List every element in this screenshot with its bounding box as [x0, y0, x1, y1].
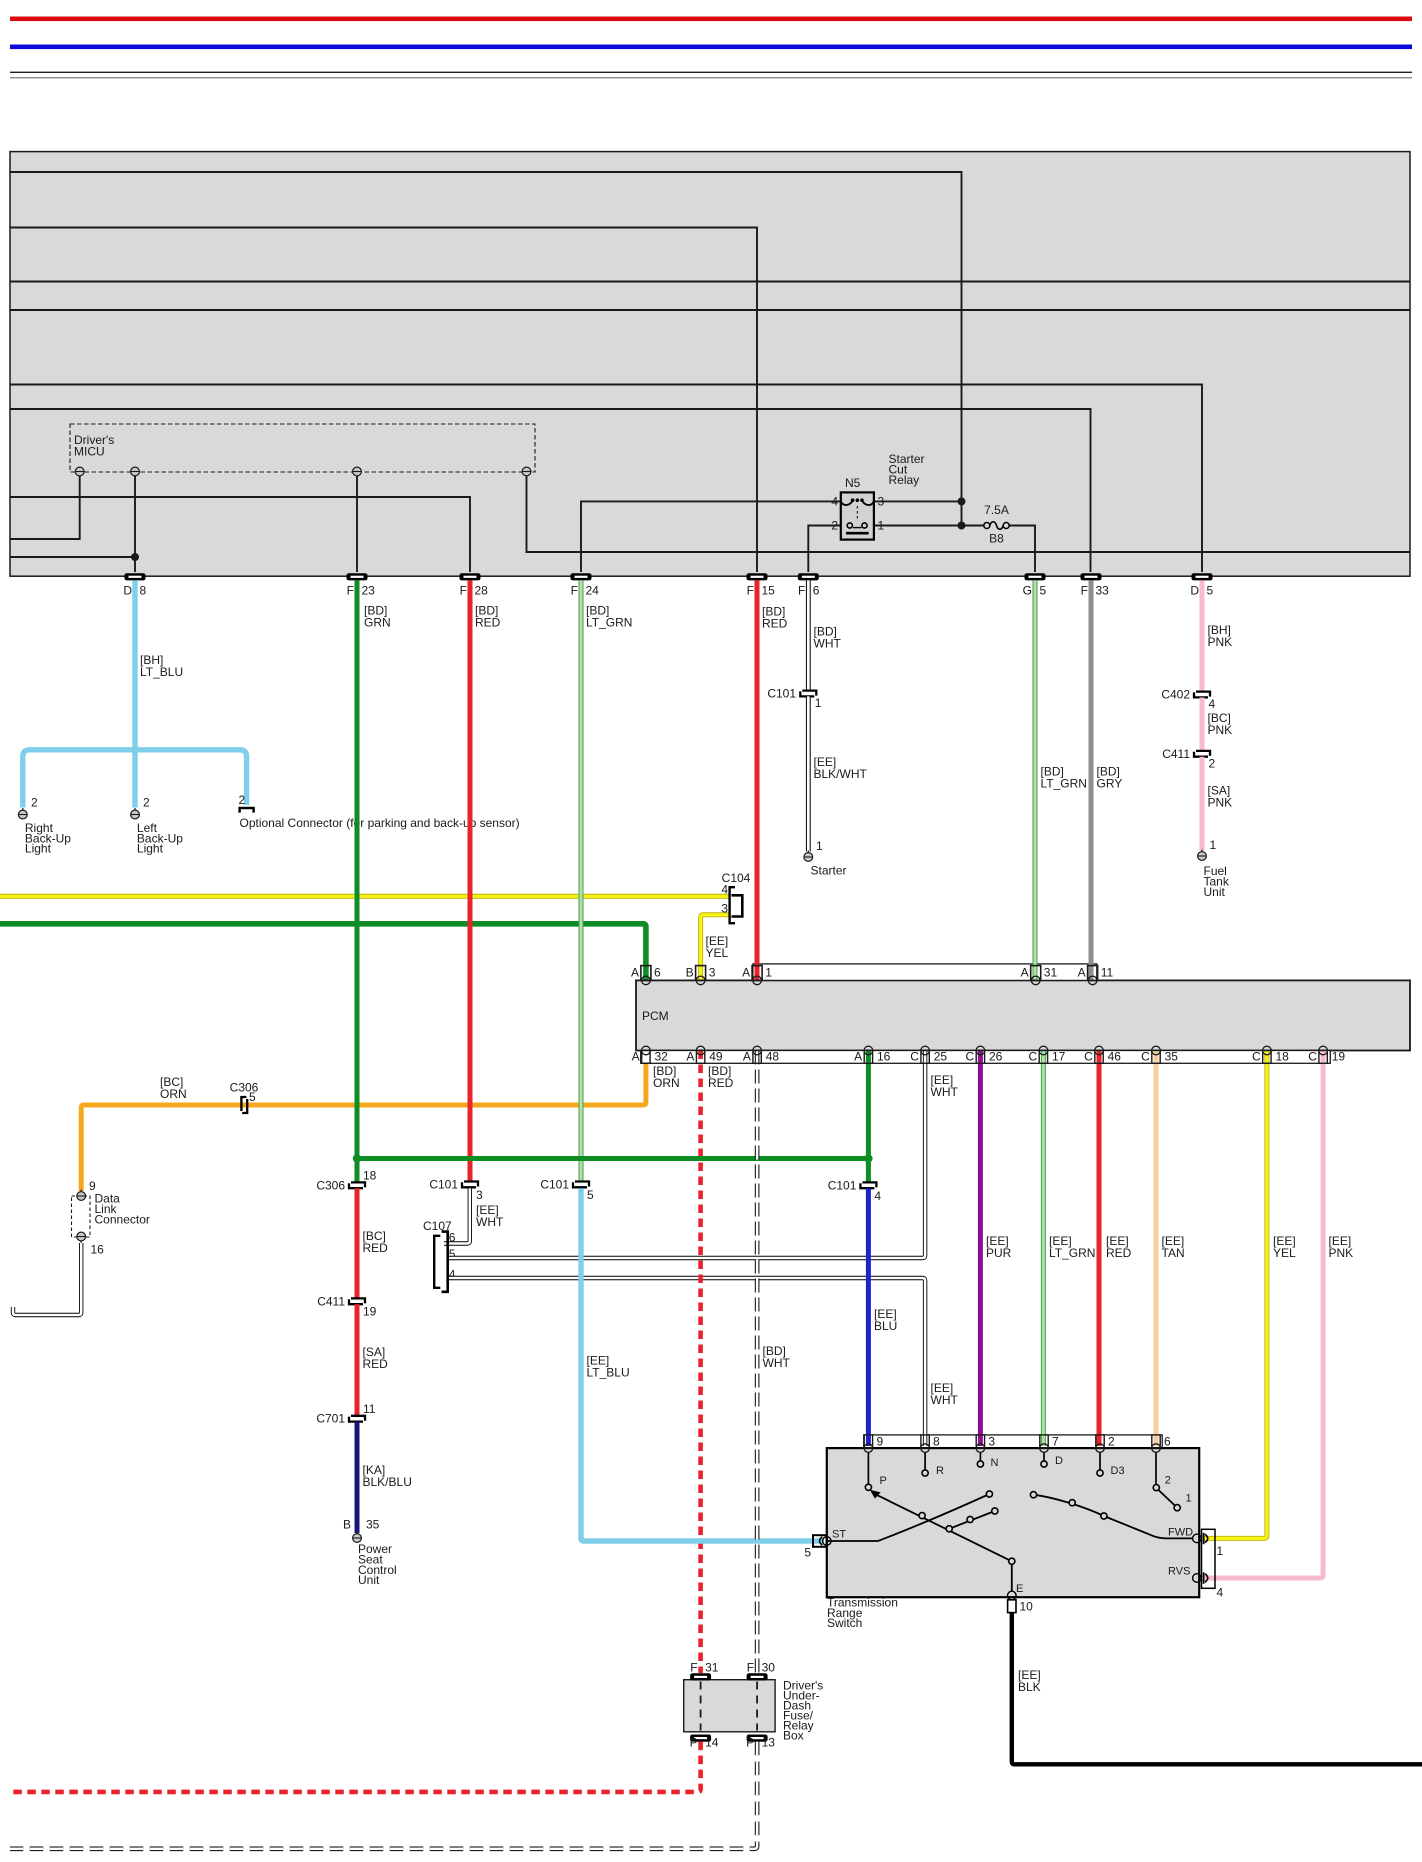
svg-text:19: 19: [1332, 1050, 1346, 1064]
TRS lever pivots: [919, 1491, 1180, 1565]
svg-text:RED: RED: [1106, 1246, 1132, 1260]
fuse box body: [684, 1680, 775, 1732]
TRS body: [827, 1448, 1199, 1597]
svg-text:5: 5: [249, 1090, 256, 1104]
relay N5 body: [841, 492, 874, 539]
svg-text:A: A: [742, 966, 750, 980]
svg-text:7.5A: 7.5A: [984, 503, 1009, 517]
svg-text:RED: RED: [762, 617, 788, 631]
svg-text:A: A: [1021, 966, 1029, 980]
svg-text:C101: C101: [767, 687, 796, 701]
svg-text:16: 16: [877, 1050, 891, 1064]
wire C26 PUR: [978, 1051, 983, 1447]
terminal DLC pin16: [77, 1232, 86, 1243]
wire bus2 y227.5 to F15: [10, 228, 757, 573]
wire D8 LT_BLU trunk: [132, 580, 137, 807]
svg-text:A: A: [686, 1050, 694, 1064]
wire bus1 y172 to relay vertical: [10, 172, 962, 499]
fuse box name: [783, 1679, 823, 1743]
junction relay pin1 node: [958, 522, 966, 530]
svg-text:G: G: [1023, 584, 1032, 598]
svg-text:10: 10: [1020, 1600, 1034, 1614]
connector C101 pin1: [800, 691, 816, 697]
svg-text:3: 3: [721, 902, 728, 916]
TRS top connector bar: [864, 1435, 1162, 1448]
wire KA BLK/BLU: [355, 1422, 360, 1533]
wire C35 TAN: [1154, 1051, 1159, 1447]
svg-text:C402: C402: [1161, 688, 1190, 702]
wire D5 PNK: [1200, 580, 1205, 691]
svg-text:C: C: [966, 1050, 975, 1064]
terminal power seat control unit: [353, 1532, 362, 1543]
svg-text:18: 18: [363, 1169, 377, 1183]
svg-text:A: A: [1078, 966, 1086, 980]
svg-text:PCM: PCM: [642, 1009, 669, 1023]
svg-text:F: F: [1081, 584, 1088, 598]
TRS top pin squares: [864, 1435, 1160, 1448]
svg-text:1: 1: [1186, 1493, 1192, 1505]
PCM top connector A bar: [753, 964, 1097, 981]
svg-text:31: 31: [705, 1660, 719, 1674]
TRS lever ST arm: [827, 1494, 990, 1541]
svg-text:4: 4: [721, 883, 728, 897]
svg-text:15: 15: [762, 584, 776, 598]
TRS lever arrowhead: [870, 1490, 881, 1499]
svg-text:2: 2: [1108, 1434, 1115, 1448]
svg-text:C411: C411: [1162, 747, 1190, 761]
terminal DLC pin9: [77, 1190, 86, 1201]
svg-text:33: 33: [1096, 584, 1110, 598]
svg-text:LT_BLU: LT_BLU: [140, 665, 183, 679]
svg-text:3: 3: [476, 1188, 483, 1202]
connector C101 pin5 on F24 ltgrn: [573, 1182, 589, 1188]
TRS top pin numbers: [877, 1434, 1172, 1448]
connector C107: [434, 1236, 440, 1288]
svg-text:C: C: [1084, 1050, 1093, 1064]
wire relay pin1 to fuse: [874, 525, 984, 527]
fuse B8: [984, 523, 990, 529]
svg-text:19: 19: [363, 1305, 377, 1319]
svg-text:C: C: [1029, 1050, 1038, 1064]
wire micu2 to D8: [10, 476, 135, 572]
svg-text:5: 5: [1207, 584, 1214, 598]
svg-text:RED: RED: [363, 1241, 389, 1255]
connector C104: [730, 887, 735, 923]
relay dashed link: [856, 506, 858, 521]
wire PNK SA: [1200, 757, 1205, 851]
svg-text:LT_GRN: LT_GRN: [1041, 777, 1087, 791]
svg-text:6: 6: [654, 966, 661, 980]
TRS top pin circles: [864, 1444, 1160, 1453]
wire C18 YEL to FWD: [1203, 1051, 1267, 1539]
connector F30: [747, 1673, 768, 1680]
wire EE WHT C107-5 to C25: [449, 1051, 925, 1259]
terminal left back-up light: [131, 808, 140, 819]
wire F24 to relay pin4: [581, 501, 841, 572]
svg-text:GRY: GRY: [1097, 777, 1123, 791]
wire G5 LT_GRN: [1033, 580, 1038, 980]
svg-text:1: 1: [815, 696, 822, 710]
svg-text:LT_BLU: LT_BLU: [587, 1366, 630, 1380]
connector F24: [571, 573, 592, 580]
wire YEL pin3 to PCM B13: [701, 915, 730, 981]
svg-text:D: D: [123, 584, 132, 598]
wire EE BLU to TRS pin9: [866, 1188, 871, 1446]
relay contacts: [847, 523, 852, 528]
gray harness box: [10, 152, 1410, 577]
svg-text:N: N: [991, 1457, 999, 1469]
svg-text:WHT: WHT: [814, 637, 842, 651]
svg-text:F: F: [690, 1660, 697, 1674]
svg-text:ORN: ORN: [653, 1076, 680, 1090]
svg-text:Starter: Starter: [811, 864, 847, 878]
svg-text:P: P: [880, 1475, 887, 1487]
connector C411 pin2: [1194, 751, 1210, 757]
wire EE WHT C107-4 to TRS pin8: [449, 1278, 925, 1446]
wire EE LT_BLU to TRS ST: [581, 1188, 824, 1541]
terminal starter: [804, 851, 813, 862]
PCM top pin squares: [641, 966, 1098, 981]
wire EE BLK from E: [1012, 1613, 1422, 1765]
svg-text:2: 2: [239, 793, 246, 807]
svg-text:C107: C107: [423, 1219, 452, 1233]
wire F23 GRN: [355, 580, 360, 1158]
relay coil: [841, 500, 874, 505]
wire P14 RED dashed exit left: [10, 1742, 701, 1792]
svg-text:C101: C101: [429, 1177, 458, 1191]
svg-text:BLK/BLU: BLK/BLU: [363, 1475, 412, 1489]
wire F33 GRY: [1089, 580, 1094, 980]
svg-text:PNK: PNK: [1208, 635, 1233, 649]
svg-text:2: 2: [31, 796, 38, 810]
wire SA RED: [355, 1304, 360, 1416]
banner red rule: [10, 17, 1412, 22]
TRS lever P arm to E: [876, 1495, 1012, 1562]
wire relay pin2 to F6: [808, 526, 841, 573]
wire BC RED: [355, 1188, 360, 1298]
connector C101 pin4 on green: [860, 1182, 876, 1188]
wire GRN link F23 to A16: [357, 1051, 868, 1183]
terminal right back-up light: [18, 808, 27, 819]
wire C46 RED: [1097, 1051, 1102, 1447]
wire DLC16 WHT exit left: [13, 1243, 81, 1315]
svg-text:C: C: [910, 1050, 919, 1064]
svg-text:PUR: PUR: [986, 1246, 1012, 1260]
svg-text:9: 9: [877, 1434, 884, 1448]
TRS lever D arc to FWD: [1034, 1495, 1193, 1539]
wire F15 RED: [755, 580, 760, 980]
svg-text:23: 23: [362, 584, 376, 598]
TRS edge pin circles: [823, 1534, 1202, 1600]
svg-text:PNK: PNK: [1329, 1246, 1354, 1260]
svg-text:26: 26: [989, 1050, 1003, 1064]
wire bus3 y281.5 full width: [10, 281, 1410, 283]
svg-text:C411: C411: [317, 1294, 345, 1308]
svg-text:A: A: [631, 966, 639, 980]
svg-text:46: 46: [1108, 1050, 1122, 1064]
svg-text:48: 48: [766, 1050, 780, 1064]
svg-text:31: 31: [1044, 966, 1058, 980]
svg-text:R: R: [936, 1465, 944, 1477]
svg-text:13: 13: [762, 1736, 776, 1750]
svg-text:F: F: [798, 584, 805, 598]
data link connector dashed box: [72, 1196, 91, 1237]
svg-text:3: 3: [709, 966, 716, 980]
connector ST housing: [813, 1535, 827, 1547]
connector F33: [1081, 573, 1102, 580]
svg-text:4: 4: [874, 1189, 881, 1203]
svg-text:17: 17: [1052, 1050, 1066, 1064]
svg-text:P: P: [746, 1736, 754, 1750]
svg-text:D3: D3: [1111, 1465, 1125, 1477]
svg-text:LT_GRN: LT_GRN: [1049, 1246, 1095, 1260]
junction GRN node2: [864, 1154, 872, 1162]
svg-text:Unit: Unit: [1204, 885, 1226, 899]
svg-text:N5: N5: [845, 476, 861, 490]
svg-text:F: F: [460, 584, 467, 598]
svg-text:A: A: [854, 1050, 862, 1064]
svg-text:Connector: Connector: [95, 1213, 150, 1227]
banner blue rule: [10, 45, 1412, 50]
svg-text:49: 49: [709, 1050, 723, 1064]
svg-text:5: 5: [804, 1546, 811, 1560]
svg-text:2: 2: [831, 519, 838, 533]
connector P14: [690, 1735, 711, 1742]
connector C411 pin19: [349, 1298, 365, 1304]
svg-text:F: F: [747, 584, 754, 598]
Driver's MICU dashed box: [70, 424, 535, 472]
wire bus4 y310 full width: [10, 309, 1410, 311]
connector C306 pin5 on orange: [241, 1097, 247, 1113]
connector F31: [690, 1673, 711, 1680]
svg-text:ORN: ORN: [160, 1087, 187, 1101]
wire PNK BC: [1200, 698, 1205, 751]
PCM bottom pin labels: [632, 1050, 1346, 1064]
svg-text:5: 5: [587, 1188, 594, 1202]
wire LT_BLU branch bar: [23, 750, 247, 808]
svg-text:18: 18: [1276, 1050, 1290, 1064]
svg-text:1: 1: [878, 519, 885, 533]
svg-text:B8: B8: [989, 532, 1004, 546]
svg-text:2: 2: [143, 796, 150, 810]
svg-text:30: 30: [762, 1660, 776, 1674]
connector F28: [460, 573, 481, 580]
PCM body: [636, 980, 1410, 1050]
wire A48 WHT dashed: [755, 1051, 760, 1674]
svg-text:2: 2: [1209, 756, 1216, 770]
junction LT_BLU node: [131, 746, 139, 754]
svg-text:Switch: Switch: [827, 1616, 862, 1630]
optional connector bracket: [240, 808, 254, 813]
connector FWD/RVS housing: [1202, 1529, 1216, 1588]
wire P13 WHT dashed exit left: [10, 1742, 757, 1849]
svg-text:WHT: WHT: [931, 1393, 959, 1407]
svg-text:F: F: [747, 1660, 754, 1674]
wire starter BLK/WHT: [806, 696, 811, 851]
connector F15: [747, 573, 768, 580]
svg-text:PNK: PNK: [1208, 796, 1233, 810]
wire F24 LT_GRN: [579, 580, 584, 1181]
connector E pin square: [1008, 1600, 1016, 1613]
svg-text:8: 8: [933, 1434, 940, 1448]
svg-text:16: 16: [91, 1243, 105, 1257]
connector G5: [1025, 573, 1046, 580]
svg-text:28: 28: [475, 584, 489, 598]
svg-text:25: 25: [934, 1050, 948, 1064]
PCM bottom pin squares: [642, 1051, 1328, 1064]
connector D5: [1192, 573, 1213, 580]
svg-text:TAN: TAN: [1162, 1246, 1185, 1260]
PCM top pin labels: [631, 966, 1113, 980]
svg-text:C101: C101: [540, 1177, 569, 1191]
PCM bottom connector bar: [641, 1051, 1331, 1064]
svg-text:LT_GRN: LT_GRN: [586, 616, 632, 630]
wire F28 RED: [468, 580, 473, 1181]
svg-text:1: 1: [1217, 1544, 1224, 1558]
wire C17 LT_GRN: [1041, 1051, 1046, 1447]
svg-text:C: C: [1308, 1050, 1317, 1064]
svg-text:YEL: YEL: [1273, 1246, 1296, 1260]
svg-text:MICU: MICU: [74, 445, 105, 459]
svg-text:8: 8: [140, 584, 147, 598]
svg-text:35: 35: [1165, 1050, 1179, 1064]
svg-text:11: 11: [1101, 966, 1114, 980]
svg-text:B: B: [686, 966, 694, 980]
svg-text:5: 5: [1040, 584, 1047, 598]
wire bus6 y409 to F33: [10, 409, 1091, 572]
wire micu3 to F23: [356, 476, 358, 572]
wire relay pin3 to junction: [874, 499, 962, 526]
svg-text:YEL: YEL: [706, 946, 729, 960]
connector C306 pin18: [349, 1182, 365, 1188]
junction D8 node: [131, 553, 139, 561]
TRS lever E stub: [1011, 1561, 1013, 1591]
wire micu1 exit left: [10, 476, 80, 539]
wire F6 WHT: [806, 580, 811, 690]
svg-text:32: 32: [655, 1050, 669, 1064]
svg-text:2: 2: [1165, 1475, 1171, 1487]
MICU terminal bubbles: [75, 467, 531, 476]
svg-text:A: A: [743, 1050, 751, 1064]
wire C19 PNK to RVS: [1203, 1051, 1323, 1579]
PCM top pin circles: [642, 976, 1097, 985]
svg-text:24: 24: [586, 584, 600, 598]
svg-text:C101: C101: [828, 1178, 857, 1192]
svg-text:WHT: WHT: [931, 1085, 959, 1099]
connector C701 pin11: [349, 1416, 365, 1422]
svg-text:RED: RED: [708, 1076, 734, 1090]
connector C402: [1194, 692, 1210, 698]
wire A49 RED dashed: [698, 1051, 703, 1674]
svg-text:C701: C701: [316, 1412, 345, 1426]
svg-text:RED: RED: [363, 1357, 389, 1371]
wire A32 ORN to DLC: [81, 1051, 646, 1192]
svg-text:6: 6: [813, 584, 820, 598]
svg-text:6: 6: [1164, 1434, 1171, 1448]
connector P13: [747, 1735, 768, 1742]
svg-text:6: 6: [449, 1230, 456, 1244]
wire bus5 y384.5 to D5: [10, 385, 1202, 573]
svg-text:WHT: WHT: [763, 1356, 791, 1370]
svg-text:4: 4: [1217, 1586, 1224, 1600]
svg-text:3: 3: [988, 1434, 995, 1448]
TRS internal stubs and contacts: [868, 1452, 1156, 1484]
svg-text:BLK: BLK: [1018, 1680, 1041, 1694]
svg-text:1: 1: [1210, 838, 1217, 852]
svg-text:E: E: [1016, 1583, 1023, 1595]
svg-text:PNK: PNK: [1208, 723, 1233, 737]
svg-text:BLU: BLU: [874, 1319, 897, 1333]
svg-text:P: P: [690, 1736, 698, 1750]
junction GRN node1: [353, 1154, 361, 1162]
svg-text:GRN: GRN: [364, 616, 391, 630]
wire YEL pin4: [0, 894, 730, 899]
terminal fuel tank unit: [1198, 850, 1207, 861]
svg-text:4: 4: [1209, 697, 1216, 711]
svg-text:C: C: [1141, 1050, 1150, 1064]
svg-text:C306: C306: [316, 1178, 345, 1192]
connector D8: [125, 573, 146, 580]
svg-text:BLK/WHT: BLK/WHT: [814, 767, 868, 781]
svg-text:1: 1: [765, 966, 772, 980]
connector C101 pin3 on F28 red: [462, 1182, 478, 1188]
TRS lever 2-1: [1159, 1490, 1176, 1506]
svg-text:D: D: [1190, 584, 1199, 598]
svg-text:Box: Box: [783, 1729, 804, 1743]
svg-text:Unit: Unit: [358, 1573, 380, 1587]
TRS position labels: [832, 1455, 1193, 1595]
PCM bottom pin circles: [642, 1046, 1328, 1055]
wire GRN bus to A16: [0, 924, 646, 981]
svg-text:D: D: [1055, 1455, 1063, 1467]
svg-text:Relay: Relay: [889, 473, 920, 487]
wire fuse to G5: [1009, 526, 1035, 573]
TRS lever branch: [949, 1511, 995, 1529]
banner thin black rule: [10, 72, 1412, 73]
svg-text:Light: Light: [137, 842, 164, 856]
svg-text:1: 1: [816, 839, 823, 853]
svg-text:ST: ST: [832, 1529, 846, 1541]
connector F23: [347, 573, 368, 580]
svg-text:WHT: WHT: [476, 1215, 504, 1229]
wire EE WHT from C101-3 to C107-6: [444, 1188, 470, 1243]
svg-text:RED: RED: [475, 616, 501, 630]
svg-text:A: A: [632, 1050, 640, 1064]
svg-text:F: F: [347, 584, 354, 598]
svg-text:11: 11: [363, 1402, 376, 1416]
svg-text:F: F: [571, 584, 578, 598]
fuse box internal dashes: [700, 1682, 702, 1731]
svg-text:Optional Connector (for parkin: Optional Connector (for parking and back…: [240, 816, 520, 830]
svg-text:FWD: FWD: [1168, 1527, 1193, 1539]
wire micu4 y552 to right edge: [527, 476, 1411, 552]
svg-text:3: 3: [878, 495, 885, 509]
svg-text:35: 35: [366, 1518, 380, 1532]
svg-text:4: 4: [831, 495, 838, 509]
banner thin gray rule: [10, 77, 1412, 78]
svg-text:Light: Light: [25, 842, 52, 856]
svg-text:RVS: RVS: [1168, 1566, 1190, 1578]
junction relay pin3 node: [958, 497, 966, 505]
connector F6: [798, 573, 819, 580]
svg-text:7: 7: [1052, 1434, 1059, 1448]
svg-text:C: C: [1252, 1050, 1261, 1064]
wire bus7 y497 to F28: [10, 497, 470, 572]
svg-text:B: B: [343, 1518, 351, 1532]
svg-text:14: 14: [705, 1736, 719, 1750]
